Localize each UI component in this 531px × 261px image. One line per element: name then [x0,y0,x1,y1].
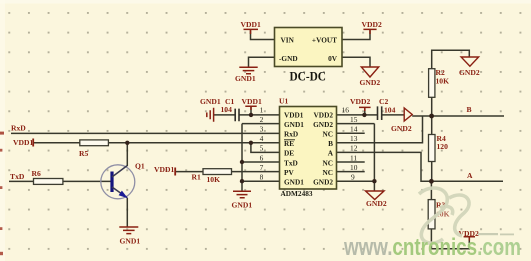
svg-text:GND2: GND2 [313,120,333,129]
svg-text:RxD: RxD [11,124,26,133]
svg-text:GND2: GND2 [360,78,381,87]
resistor R2 [429,69,435,98]
svg-text:R5: R5 [79,149,88,158]
U1 pin names left [284,110,304,186]
wire TxD to R6 [9,180,34,182]
wire R1 to pin7 [175,171,279,173]
svg-text:4: 4 [260,134,264,143]
pin 8 stub [242,180,280,182]
svg-text:VDD1: VDD1 [284,110,304,119]
U1 pin numbers 16-9 [342,105,358,181]
pin 6 stub [242,161,280,163]
svg-text:GND1: GND1 [120,237,141,246]
U1 pin numbers 1-8 [260,105,264,181]
pin 15 stub [337,123,375,125]
U1 pin RE overline [284,139,295,141]
svg-text:TxD: TxD [10,172,25,181]
svg-text:GND2: GND2 [391,124,412,133]
svg-text:12: 12 [350,144,358,153]
junction pin16 VDD2 [362,113,366,117]
svg-text:DE: DE [284,149,294,158]
watermark swirl over R3 [419,188,469,243]
svg-text:VDD1: VDD1 [241,20,261,29]
svg-text:14: 14 [350,125,358,134]
svg-text:R1: R1 [192,173,201,182]
resistor R6 [34,179,63,185]
left edge artifacts [0,132,4,135]
ground GND2 at C2 rotated [404,108,412,121]
wire VDD1 to VIN [251,30,275,39]
DC-DC converter box [275,28,343,67]
wire GND1 to -GND [249,57,275,67]
resistor R5 [80,140,109,146]
ground GND2 under pin9 [366,191,385,200]
power VDD2 bottom right [464,237,475,241]
watermark dots after VDD2 [478,233,514,235]
svg-text:GND2: GND2 [313,178,333,187]
junction node A [429,179,434,184]
svg-text:2: 2 [260,115,264,124]
svg-text:5: 5 [260,144,264,153]
svg-text:VDD1: VDD1 [154,165,174,174]
wire R4 to node A [431,162,433,182]
svg-text:3: 3 [260,125,264,134]
GND2 net vertical [373,124,375,191]
junction collector node [125,141,129,145]
svg-text:VDD2: VDD2 [362,20,382,29]
svg-text:A: A [467,171,473,180]
ground GND1 under DC-DC [239,67,257,74]
pin 16 stub [337,114,365,116]
ground GND1 under pin8 [233,191,251,198]
svg-text:-GND: -GND [279,54,298,63]
capacitor C2 [378,106,382,120]
svg-text:B: B [467,105,472,114]
svg-text:GND1: GND1 [232,201,253,210]
svg-text:www.cntronics.com: www.cntronics.com [343,234,521,261]
resistor R4 [429,135,436,162]
svg-text:TxD: TxD [284,158,298,167]
svg-text:R6: R6 [32,169,41,178]
svg-text:104: 104 [221,105,233,114]
svg-text:8: 8 [260,173,264,182]
svg-text:A: A [328,149,334,158]
svg-text:6: 6 [260,153,264,162]
svg-text:10: 10 [350,163,358,172]
net A line [431,180,503,182]
svg-text:PV: PV [284,168,294,177]
wire C1 left to GND1 earth [214,114,235,116]
junction pin1 [249,113,253,117]
junction pin8 [240,179,244,183]
svg-text:10K: 10K [436,77,450,86]
svg-text:1: 1 [260,105,264,114]
svg-text:NC: NC [322,158,333,167]
svg-text:13: 13 [350,134,358,143]
svg-text:GND2: GND2 [459,68,480,77]
wire C1 right to pin1 [239,114,280,116]
power VDD2 at pin16 [359,107,371,111]
svg-text:VDD1: VDD1 [13,138,33,147]
net B line [432,115,504,117]
wire R2 bottom to node B [431,97,433,116]
svg-text:120: 120 [437,142,449,151]
svg-text:VDD2: VDD2 [350,97,370,106]
U1 pin names right column [313,110,334,186]
svg-text:16: 16 [342,105,350,114]
GND1 net vertical [241,124,243,191]
svg-text:NC: NC [322,168,333,177]
wire 0V to GND2 [342,57,370,67]
svg-text:GND1: GND1 [200,97,221,106]
ground GND2 top right [461,57,479,66]
ground GND1 rotated at C1 [207,108,214,122]
power VDD1 top [244,29,259,34]
wire VDD2 bar to pin16 [364,108,366,115]
power VDD2 top [363,29,376,34]
wire pin13 to node B [337,116,423,143]
pin 2 stub to GND vertical [242,123,280,125]
wire node A to R3 [430,181,432,199]
IC U1 ADM2483 [280,107,337,190]
capacitor C1 [235,109,239,122]
svg-text:VDD2: VDD2 [314,110,334,119]
junction pin6 [240,160,244,164]
wire collector node [126,143,128,166]
wire pin12 to node A [337,152,432,181]
svg-text:U1: U1 [279,97,288,106]
wire R3 bottom to VDD2 [431,229,469,249]
resistor R3 [428,200,435,229]
transistor Q1 [101,165,135,199]
svg-text:104: 104 [384,106,396,115]
svg-text:B: B [328,139,333,148]
svg-text:GND2: GND2 [366,199,387,208]
ground GND2 under DC-DC 0V [361,67,378,77]
ground GND1 under Q1 [119,227,138,234]
pin 10 stub [337,171,365,173]
svg-text:RxD: RxD [284,130,298,139]
wire R2 top to GND2 [432,50,470,68]
svg-text:GND1: GND1 [235,74,256,83]
svg-text:Q1: Q1 [135,162,145,171]
resistor R1 [203,169,232,175]
wire node B to R4 [431,116,433,135]
wire pin16 to C2 [364,114,377,116]
wire VDD1 bar to pin1 [250,107,252,115]
svg-text:VIN: VIN [281,36,295,45]
wire VDD1 R5 node to pin4 [33,142,279,144]
svg-text:NC: NC [322,130,333,139]
pin 14 stub [337,132,365,134]
svg-text:7: 7 [260,163,264,172]
svg-text:10K: 10K [207,175,221,184]
svg-text:ADM2483: ADM2483 [281,189,313,198]
svg-text:GND1: GND1 [284,178,304,187]
junction pin4 [249,141,253,145]
svg-text:0V: 0V [328,54,338,63]
svg-text:RE: RE [284,139,294,148]
wire RxD to pin3 [11,132,280,134]
svg-text:GND1: GND1 [284,120,304,129]
pin 11 stub [337,161,365,163]
wire RE-DE tie [251,143,280,153]
wire C2 to GND2 and node B [382,115,432,116]
wire R6 to base [63,180,112,182]
svg-text:+VOUT: +VOUT [312,36,337,45]
pin 9 stub [337,180,375,182]
svg-text:11: 11 [350,153,357,162]
junction node B [429,114,434,119]
wire +VOUT to VDD2 [342,30,370,39]
svg-text:15: 15 [350,115,358,124]
junction pin9 GND2 [372,179,376,183]
wire emitter to GND1 [126,198,128,227]
power VDD1 at pin1 [245,106,256,110]
svg-text:DC-DC: DC-DC [290,69,327,84]
svg-text:9: 9 [351,173,355,182]
